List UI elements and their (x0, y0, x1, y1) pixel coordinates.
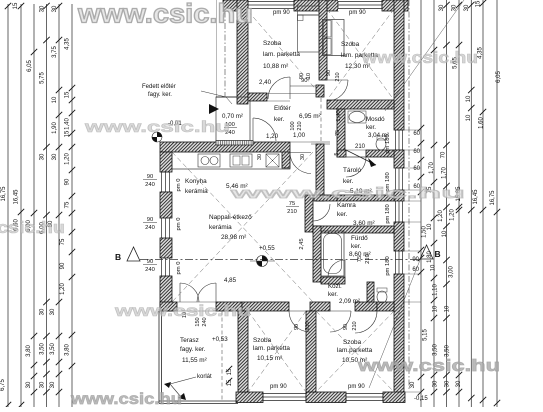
svg-text:10: 10 (466, 114, 472, 121)
corridor south wall segment 3 (355, 302, 377, 311)
svg-text:5: 5 (334, 152, 340, 155)
svg-text:30: 30 (40, 5, 46, 12)
svg-text:11,55 m²: 11,55 m² (182, 357, 207, 364)
porch entry arrow (209, 104, 219, 114)
kitchen counter (172, 152, 290, 169)
svg-text:pm 90: pm 90 (349, 10, 366, 16)
svg-text:5,15: 5,15 (423, 329, 429, 341)
bottom wall window pm90 szoba right (346, 393, 383, 395)
furdo kozl wall (321, 277, 345, 284)
fedett elotér leader (201, 91, 232, 104)
terrace dashed line (221, 311, 223, 401)
svg-text:10,15 m²: 10,15 m² (257, 355, 282, 362)
svg-text:1,70: 1,70 (442, 167, 448, 179)
left wall window 90/240 living lower (161, 258, 163, 276)
level mark entry (157, 132, 162, 137)
door arc room1 (268, 77, 290, 99)
svg-text:ker.: ker. (328, 291, 338, 298)
svg-text:3,50: 3,50 (445, 345, 451, 357)
svg-text:90: 90 (147, 259, 153, 265)
svg-text:1,40: 1,40 (65, 118, 71, 130)
svg-text:kerámia: kerámia (209, 224, 232, 231)
kozl toilet (377, 291, 387, 303)
svg-text:3,80: 3,80 (26, 345, 32, 357)
svg-text:1,00: 1,00 (293, 132, 306, 139)
svg-text:16,75: 16,75 (1, 186, 7, 202)
kitchen north exterior wall (160, 142, 290, 152)
svg-text:ker.: ker. (366, 124, 376, 131)
kitchen appliance (266, 154, 279, 167)
top exterior wall left segment (223, 0, 248, 11)
svg-text:210: 210 (365, 254, 371, 264)
elotér door wall stub (282, 152, 290, 168)
left wall window 90/240 kitchen (161, 172, 163, 192)
tarolo kamra wall (337, 195, 394, 201)
svg-text:pm 180: pm 180 (385, 256, 391, 275)
svg-text:10: 10 (433, 305, 439, 312)
svg-text:1,20: 1,20 (65, 153, 71, 165)
svg-text:Szoba: Szoba (263, 40, 282, 47)
room2 bed (323, 20, 345, 56)
top wall window pm90 room2 (338, 0, 382, 11)
right dimension lines (420, 0, 422, 407)
svg-text:10: 10 (52, 96, 58, 103)
svg-text:30: 30 (40, 381, 46, 388)
svg-text:4,35: 4,35 (65, 38, 71, 50)
kamra west wall upper stub (314, 195, 337, 201)
svg-text:1,20: 1,20 (438, 210, 444, 222)
svg-text:90: 90 (65, 178, 71, 185)
furdo west wall (313, 226, 321, 282)
room1 diagonal (248, 11, 319, 93)
svg-text:4,85: 4,85 (224, 277, 237, 284)
svg-text:90: 90 (326, 70, 332, 76)
svg-text:pm 90: pm 90 (348, 384, 365, 390)
svg-text:3,50: 3,50 (50, 343, 56, 355)
mosdo toilet (376, 138, 386, 150)
svg-text:210: 210 (355, 144, 366, 150)
left exterior wall segment 4 (160, 276, 172, 311)
tarolo door head (346, 149, 366, 151)
long leader to top right (385, 0, 464, 111)
svg-text:ker.: ker. (274, 116, 285, 123)
svg-text:pm 180: pm 180 (385, 204, 391, 223)
svg-text:pm 90: pm 90 (270, 384, 287, 390)
svg-text:ker.: ker. (337, 211, 348, 218)
svg-text:2,40: 2,40 (259, 79, 272, 86)
entry door sill strip (216, 141, 253, 146)
svg-text:Mosdó: Mosdó (366, 116, 385, 123)
svg-text:6,75: 6,75 (0, 379, 6, 391)
svg-text:3,00: 3,00 (449, 266, 455, 278)
svg-text:1,70: 1,70 (429, 162, 435, 174)
kozl wc wall (367, 282, 374, 306)
left dimension ticks (43, 3, 49, 9)
long leader bottom right (369, 250, 424, 388)
mosdo west wall (337, 109, 345, 157)
svg-text:30: 30 (50, 381, 56, 388)
svg-text:-0,15: -0,15 (414, 396, 428, 402)
top exterior wall middle segment (294, 0, 338, 11)
svg-text:Előtér: Előtér (274, 105, 292, 112)
corridor south wall segment 1 (242, 302, 289, 311)
svg-text:ker.: ker. (351, 243, 362, 250)
door arc room2 (327, 80, 348, 101)
svg-text:10: 10 (427, 223, 433, 230)
bottom exterior wall right segment (383, 392, 405, 403)
svg-text:70: 70 (441, 151, 447, 158)
section marker B right (420, 245, 433, 259)
room1 wardrobe lower (298, 15, 320, 52)
room1 wardrobe upper (298, 6, 320, 15)
svg-text:1,60: 1,60 (479, 117, 485, 129)
left exterior wall segment 2 (160, 192, 172, 218)
svg-text:3,50: 3,50 (40, 343, 46, 355)
kamra furdo wall (313, 226, 394, 233)
mosdo south wall west stub (337, 150, 346, 157)
svg-text:4,35: 4,35 (478, 47, 484, 59)
level mark living +0,55 (262, 256, 268, 262)
svg-text:30: 30 (40, 153, 46, 160)
top wall window pm90 room1 (248, 0, 294, 11)
svg-text:www.csic.hu: www.csic.hu (77, 0, 253, 29)
right dimension ticks (443, 2, 449, 8)
svg-text:240: 240 (145, 182, 155, 188)
svg-text:60: 60 (413, 131, 420, 137)
svg-text:Szoba: Szoba (341, 41, 360, 48)
svg-text:10: 10 (442, 230, 448, 237)
svg-text:1,10: 1,10 (433, 284, 439, 296)
svg-text:lam.parketta: lam.parketta (337, 347, 373, 354)
terrace szoba dividing wall (238, 311, 248, 392)
svg-text:15: 15 (65, 130, 71, 137)
room1-room2 dividing wall (319, 0, 327, 80)
room2 mosdo wall (327, 100, 394, 109)
kitchen sink (198, 154, 220, 167)
svg-text:210: 210 (335, 72, 341, 81)
svg-text:30: 30 (257, 154, 263, 160)
svg-text:75: 75 (65, 201, 71, 208)
living south wall east part (216, 302, 242, 311)
svg-text:6,05: 6,05 (27, 60, 33, 72)
svg-text:1,40: 1,40 (336, 110, 342, 121)
svg-text:pm 0: pm 0 (176, 262, 182, 275)
svg-text:2,45: 2,45 (299, 238, 305, 249)
svg-text:90: 90 (412, 257, 419, 263)
right exterior wall segment 4 (394, 222, 404, 251)
covered entry porch outline (216, 97, 250, 142)
svg-text:90°: 90° (301, 78, 310, 84)
terrace door opening double (177, 301, 216, 303)
svg-text:100: 100 (290, 121, 296, 130)
room2 diagonal (327, 9, 394, 100)
elotér east wall lower (316, 144, 324, 201)
top exterior wall right segment (382, 0, 408, 11)
svg-text:30: 30 (464, 4, 470, 11)
roof overhang dash-dot left (224, 0, 226, 97)
svg-text:B: B (115, 252, 121, 262)
svg-text:15: 15 (13, 2, 19, 9)
roof overhang dash-dot right (408, 0, 410, 390)
svg-text:3,75: 3,75 (52, 46, 58, 58)
door arc kamra (313, 204, 330, 221)
room1 west exterior wall (237, 0, 248, 104)
svg-text:1,20: 1,20 (266, 133, 279, 140)
svg-text:30: 30 (445, 380, 451, 387)
svg-text:korlát: korlát (197, 374, 212, 380)
svg-text:30: 30 (300, 154, 306, 160)
ridge dashed line at elotér (320, 85, 322, 175)
svg-text:kerámia: kerámia (185, 188, 208, 195)
svg-text:1,90: 1,90 (52, 122, 58, 134)
svg-text:pm 90: pm 90 (273, 10, 290, 16)
svg-text:210: 210 (297, 121, 303, 130)
right wall extension lines (404, 129, 421, 131)
svg-text:www.csic.hu: www.csic.hu (70, 391, 182, 407)
svg-text:30: 30 (433, 380, 439, 387)
svg-text:75: 75 (60, 238, 66, 245)
section line B-B dash dot (140, 259, 420, 261)
door arc szoba bottom-right (355, 311, 377, 333)
svg-text:1,20: 1,20 (450, 209, 456, 221)
svg-text:16,75: 16,75 (490, 190, 496, 206)
svg-text:30: 30 (52, 5, 58, 12)
right exterior wall segment 1 (394, 0, 404, 130)
left exterior wall segment 3 (160, 238, 172, 258)
svg-text:75: 75 (357, 256, 363, 262)
svg-text:90: 90 (294, 324, 300, 330)
right exterior wall segment 5 (394, 274, 404, 402)
svg-text:90: 90 (147, 174, 153, 180)
tarolo attic arrow (346, 150, 376, 165)
right exterior wall segment 2 (394, 150, 404, 168)
svg-text:Kamra: Kamra (337, 202, 356, 209)
kamra west wall (305, 195, 313, 232)
svg-text:10: 10 (431, 264, 437, 271)
bottom exterior wall middle segment (306, 392, 346, 403)
svg-text:3,60 m²: 3,60 m² (353, 220, 375, 227)
svg-text:Szoba: Szoba (253, 337, 272, 344)
door arc szoba bottom-left (289, 311, 310, 332)
right wall window pm180 mosdo (395, 130, 397, 150)
svg-text:16,45: 16,45 (473, 189, 479, 205)
svg-text:210: 210 (352, 321, 358, 330)
svg-text:90: 90 (343, 324, 349, 330)
svg-text:210: 210 (305, 321, 311, 330)
mosdo south wall east part (366, 150, 394, 157)
svg-text:Terasz: Terasz (180, 337, 199, 344)
svg-text:240: 240 (145, 267, 155, 273)
svg-text:Konyha: Konyha (185, 178, 207, 185)
door arc tarolo (346, 157, 366, 177)
svg-text:10: 10 (466, 95, 472, 102)
terrace french door arcs (180, 283, 199, 302)
svg-text:6,05: 6,05 (496, 71, 502, 83)
right wall window pm180 kamra (395, 201, 397, 222)
svg-text:fagy. ker.: fagy. ker. (180, 346, 206, 353)
svg-text:30: 30 (410, 381, 416, 388)
svg-text:30: 30 (26, 381, 32, 388)
svg-text:90: 90 (60, 262, 66, 269)
kitchen stove (230, 154, 252, 167)
szoba bottom-right diagonal (316, 311, 394, 392)
door arc kozl (330, 311, 351, 332)
svg-text:30: 30 (439, 4, 445, 11)
svg-text:30: 30 (40, 308, 46, 315)
right wall window pm180 tarolo (395, 168, 397, 190)
svg-text:60: 60 (413, 166, 420, 172)
left exterior wall segment 1 (160, 152, 172, 172)
elotér east wall upper stub (316, 85, 324, 97)
svg-text:Szoba: Szoba (343, 339, 362, 346)
left dimension lines (7, 4, 9, 407)
svg-text:240: 240 (145, 225, 155, 231)
right exterior wall segment 3 (394, 190, 404, 201)
korlat leader arrows (170, 377, 196, 397)
door arc elotér to living (290, 153, 311, 174)
mosdo washbasin (349, 112, 365, 123)
room1 south wall (248, 93, 267, 101)
svg-text:Közl.: Közl. (328, 283, 342, 290)
svg-text:lam. parketta: lam. parketta (263, 51, 300, 58)
left wall window 90/240 living upper (161, 218, 163, 238)
svg-text:pm 180: pm 180 (385, 134, 391, 153)
svg-text:15: 15 (476, 0, 482, 7)
svg-text:10: 10 (445, 305, 451, 312)
svg-text:5,75: 5,75 (40, 72, 46, 84)
svg-text:Fedett előtér: Fedett előtér (142, 84, 176, 90)
svg-text:csic.hu: csic.hu (0, 218, 65, 237)
svg-text:www.csic.hu: www.csic.hu (357, 357, 500, 375)
svg-text:75: 75 (335, 130, 341, 136)
svg-text:6,95 m²: 6,95 m² (299, 113, 321, 120)
corridor south wall segment 2 (310, 302, 330, 311)
svg-text:2,09 m²: 2,09 m² (339, 298, 360, 305)
door arc furdo (328, 260, 345, 277)
svg-text:28,98 m²: 28,98 m² (221, 234, 246, 241)
svg-text:3,80: 3,80 (65, 344, 71, 356)
svg-text:pm 0: pm 0 (176, 179, 182, 192)
svg-text:Nappali-étkező: Nappali-étkező (209, 214, 252, 221)
right wall window pm180 furdo (395, 251, 397, 274)
svg-text:30: 30 (52, 153, 58, 160)
svg-text:10,88 m²: 10,88 m² (263, 63, 288, 70)
szoba bottom-left diagonal (248, 311, 306, 392)
svg-text:30: 30 (50, 308, 56, 315)
door arc entry porch (253, 118, 276, 141)
svg-text:ker.: ker. (343, 178, 354, 185)
svg-text:1,20: 1,20 (60, 283, 66, 295)
svg-text:15: 15 (65, 91, 71, 98)
svg-text:lam. parketta: lam. parketta (253, 345, 290, 352)
svg-text:www.csic.hu: www.csic.hu (114, 303, 251, 320)
svg-text:www.csic.hu: www.csic.hu (361, 48, 478, 67)
svg-text:Fürdő: Fürdő (351, 235, 368, 242)
svg-text:+0,53: +0,53 (212, 336, 228, 343)
svg-text:210: 210 (287, 209, 297, 215)
svg-text:+0,55: +0,55 (259, 245, 275, 252)
room1 door nook lines (290, 85, 317, 87)
svg-text:fagy. ker.: fagy. ker. (148, 92, 172, 98)
svg-text:www.csic.hu: www.csic.hu (228, 185, 465, 202)
svg-text:Tároló: Tároló (343, 167, 362, 174)
bottom wall window pm90 szoba left (263, 393, 306, 395)
svg-text:B: B (435, 249, 441, 259)
svg-text:www.csic.hu: www.csic.hu (83, 119, 230, 136)
bathtub (321, 231, 344, 276)
svg-text:15: 15 (227, 368, 233, 375)
svg-text:16,45: 16,45 (14, 189, 20, 205)
living room diagonals (172, 152, 313, 302)
bottom szobas dividing wall (306, 311, 316, 392)
living south wall west stub (160, 302, 177, 311)
wc niche south wall (377, 302, 394, 311)
elotér south door opening (290, 141, 311, 143)
svg-text:3,50: 3,50 (433, 344, 439, 356)
svg-text:1,50: 1,50 (422, 226, 428, 238)
svg-text:30: 30 (456, 380, 462, 387)
svg-text:pm 0: pm 0 (176, 218, 182, 231)
svg-text:90: 90 (147, 217, 153, 223)
terrace south railing korlat (159, 400, 238, 402)
bottom exterior wall left segment (236, 392, 263, 403)
terrace west railing (158, 311, 160, 403)
eave line left (216, 0, 218, 97)
